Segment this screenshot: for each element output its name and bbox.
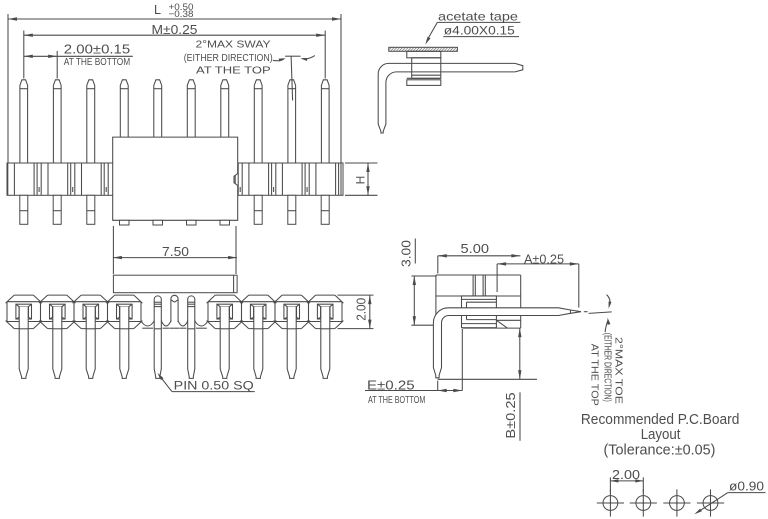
svg-text:3.00: 3.00	[399, 240, 413, 267]
acetate tape (hatched)	[389, 47, 458, 51]
right-angle pin (side view)	[433, 308, 587, 378]
strip pin 7 shaft	[220, 307, 229, 379]
pcb hole 3	[663, 489, 690, 516]
svg-text:7.50: 7.50	[162, 244, 189, 259]
svg-text:PIN 0.50 SQ: PIN 0.50 SQ	[174, 380, 254, 392]
right-angle pin (tape figure)	[378, 63, 523, 133]
pin 3 tail	[87, 195, 95, 224]
label PIN 0.50 SQ	[157, 373, 255, 393]
strip segment pin 9	[274, 295, 310, 329]
strip segment pin 3	[73, 295, 110, 329]
housing band front view	[7, 163, 343, 195]
scalloped web between bare pins	[141, 321, 208, 328]
svg-text:5.00: 5.00	[461, 242, 490, 256]
dimension 7.50	[113, 226, 237, 274]
side-view housing	[436, 275, 521, 328]
strip pin 3 shaft	[86, 307, 95, 379]
dimension A±0.25	[497, 253, 579, 308]
pin 8 front view	[254, 80, 262, 163]
svg-text:ø4.00X0.15: ø4.00X0.15	[444, 23, 515, 37]
svg-text:acetate tape: acetate tape	[438, 10, 518, 24]
svg-text:(EITHER DIRECTION): (EITHER DIRECTION)	[184, 52, 273, 64]
bare pin at x=157.75	[154, 296, 161, 322]
svg-text:H: H	[354, 176, 368, 185]
label dia 0.90	[694, 478, 765, 514]
cover foot	[120, 220, 130, 225]
strip segment pin 4	[106, 295, 142, 329]
strip pin 9 shaft	[287, 307, 296, 379]
svg-text:AT THE BOTTOM: AT THE BOTTOM	[368, 394, 425, 406]
dimension L +0.50/-0.38	[8, 2, 341, 163]
label acetate tape / dia 4.00x0.15	[425, 10, 520, 45]
strip pin 8 shaft	[254, 307, 263, 379]
svg-text:L: L	[154, 3, 161, 17]
strip pin 1 shaft	[19, 307, 28, 379]
pcb hole 1	[597, 489, 624, 516]
strip segment pin 2	[39, 295, 76, 329]
svg-text:ø0.90: ø0.90	[729, 478, 764, 493]
pin 6 front view	[187, 80, 195, 137]
dimension 3.00	[399, 239, 436, 326]
strip pin 5 shaft	[154, 320, 161, 378]
strip segment pin 10	[307, 295, 343, 329]
dimension 5.00	[438, 242, 521, 273]
strip pin 4 shaft	[120, 307, 129, 379]
svg-text:A±0.25: A±0.25	[524, 253, 564, 267]
strip segment pin 7	[207, 295, 243, 329]
svg-text:B±0.25: B±0.25	[504, 392, 518, 438]
bare pin at x=174.5	[170, 295, 179, 328]
strip segment pin 1	[6, 295, 42, 329]
svg-text:Layout: Layout	[641, 427, 681, 443]
dimension 2.00 hole pitch	[610, 467, 643, 492]
pin 1 front view	[20, 80, 28, 163]
strip pin 2 shaft	[53, 307, 62, 379]
label 2 deg max sway at the top	[184, 39, 273, 77]
svg-text:2.00±0.15: 2.00±0.15	[64, 43, 130, 57]
label 2 deg max toe at the top	[589, 295, 625, 406]
dimension E±0.25 at the bottom	[365, 329, 462, 406]
pcb hole 4	[697, 489, 724, 516]
sway angle indicator at pin 9	[273, 56, 315, 101]
cover foot	[153, 220, 163, 225]
pin 3 front view	[87, 80, 95, 163]
center cover body	[113, 137, 238, 220]
dimension B±0.25	[438, 328, 537, 441]
cover foot	[220, 220, 230, 225]
strip pin 6 shaft	[188, 320, 195, 378]
pin 9 tail	[288, 195, 296, 224]
svg-text:(EITHER DIRECTION): (EITHER DIRECTION)	[601, 333, 613, 402]
pin 1 tail	[20, 195, 28, 224]
svg-text:−0.38: −0.38	[169, 9, 194, 20]
dimension 2.00±0.15 at the bottom	[24, 43, 133, 79]
svg-text:AT THE TOP: AT THE TOP	[589, 344, 601, 406]
svg-text:AT THE BOTTOM: AT THE BOTTOM	[64, 56, 130, 68]
cover foot	[187, 220, 197, 225]
cover bar above strip	[113, 275, 237, 293]
svg-text:(Tolerance:±0.05): (Tolerance:±0.05)	[604, 443, 716, 459]
svg-text:2.00: 2.00	[353, 298, 368, 321]
pin 7 front view	[221, 80, 229, 137]
pin 9 front view	[288, 80, 296, 163]
dimension M±0.25	[24, 23, 325, 79]
pin 10 tail	[321, 195, 329, 224]
strip housing white body	[7, 295, 342, 329]
bare pin at x=191.25	[188, 296, 195, 322]
pin 2 front view	[53, 80, 61, 163]
pin 10 front view	[321, 80, 329, 163]
svg-text:M±0.25: M±0.25	[152, 23, 198, 37]
tape-reel housing stack	[407, 51, 441, 85]
pcb hole 2	[630, 489, 657, 516]
svg-text:AT THE TOP: AT THE TOP	[196, 64, 271, 76]
strip pin 10 shaft	[321, 307, 330, 379]
dimension 2.00 strip height	[338, 295, 374, 329]
strip segment pin 8	[240, 295, 276, 329]
pin 2 tail	[53, 195, 61, 224]
pin 4 front view	[120, 80, 128, 137]
pin 5 front view	[154, 80, 162, 137]
pin 8 tail	[254, 195, 262, 224]
label recommended PCB layout	[581, 412, 740, 459]
svg-text:2.00: 2.00	[612, 467, 640, 482]
dimension H	[345, 163, 378, 195]
svg-text:Recommended P.C.Board: Recommended P.C.Board	[581, 412, 740, 428]
svg-text:2°MAX SWAY: 2°MAX SWAY	[196, 39, 271, 51]
